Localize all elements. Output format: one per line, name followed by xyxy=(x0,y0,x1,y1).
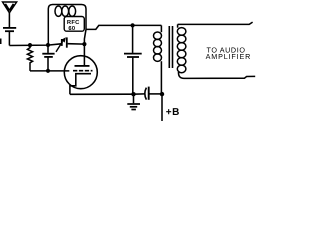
capacitor C1 (antenna series cap) xyxy=(3,27,16,29)
RFC label box xyxy=(64,17,84,32)
capacitor C4 (plate bypass) xyxy=(132,25,134,53)
vacuum tube V1 envelope xyxy=(64,56,97,89)
wire node A xyxy=(9,44,61,46)
wire xyxy=(68,43,85,45)
junction dot xyxy=(46,69,50,73)
variable capacitor C3 (series, with arrow) xyxy=(61,39,63,46)
grid xyxy=(73,70,93,72)
capacitor C5 (B+ bypass, curved plate) xyxy=(145,88,147,100)
inductor RFC enclosure xyxy=(48,5,86,46)
plate xyxy=(75,65,90,67)
svg-text:60: 60 xyxy=(68,25,75,32)
junction dot xyxy=(131,92,135,96)
wire (plate lead vertical) xyxy=(84,29,86,66)
svg-text:AMPLIFIER: AMPLIFIER xyxy=(206,52,252,61)
transformer T1 primary xyxy=(160,25,162,32)
svg-text:RFC: RFC xyxy=(67,19,80,26)
junction dot xyxy=(82,42,86,46)
transformer T1 secondary xyxy=(177,24,179,27)
wire (B+ top wire) xyxy=(86,25,161,29)
ground xyxy=(133,94,135,103)
junction dot xyxy=(131,23,135,27)
svg-text:+B: +B xyxy=(166,107,180,118)
wire xyxy=(8,12,10,28)
scan artifact left edge xyxy=(0,39,2,45)
wire xyxy=(8,32,10,46)
node A junction dot xyxy=(28,43,32,47)
wire secondary top lead xyxy=(178,22,253,24)
wire (grid wire) xyxy=(30,70,69,72)
capacitor C2 (grid capacitor) xyxy=(47,45,49,53)
wire (cathode / ground bus) xyxy=(70,93,145,95)
node grid-cap junction dot xyxy=(46,43,50,47)
wire secondary bottom lead xyxy=(178,72,255,78)
antenna xyxy=(3,2,17,13)
wire xyxy=(149,93,162,95)
cathode xyxy=(70,74,91,95)
wire +B feed xyxy=(161,94,163,121)
inductor RFC coil xyxy=(55,6,62,16)
transformer core xyxy=(168,26,170,68)
junction dot xyxy=(160,92,164,96)
resistor R1 (grid leak) xyxy=(27,45,32,71)
